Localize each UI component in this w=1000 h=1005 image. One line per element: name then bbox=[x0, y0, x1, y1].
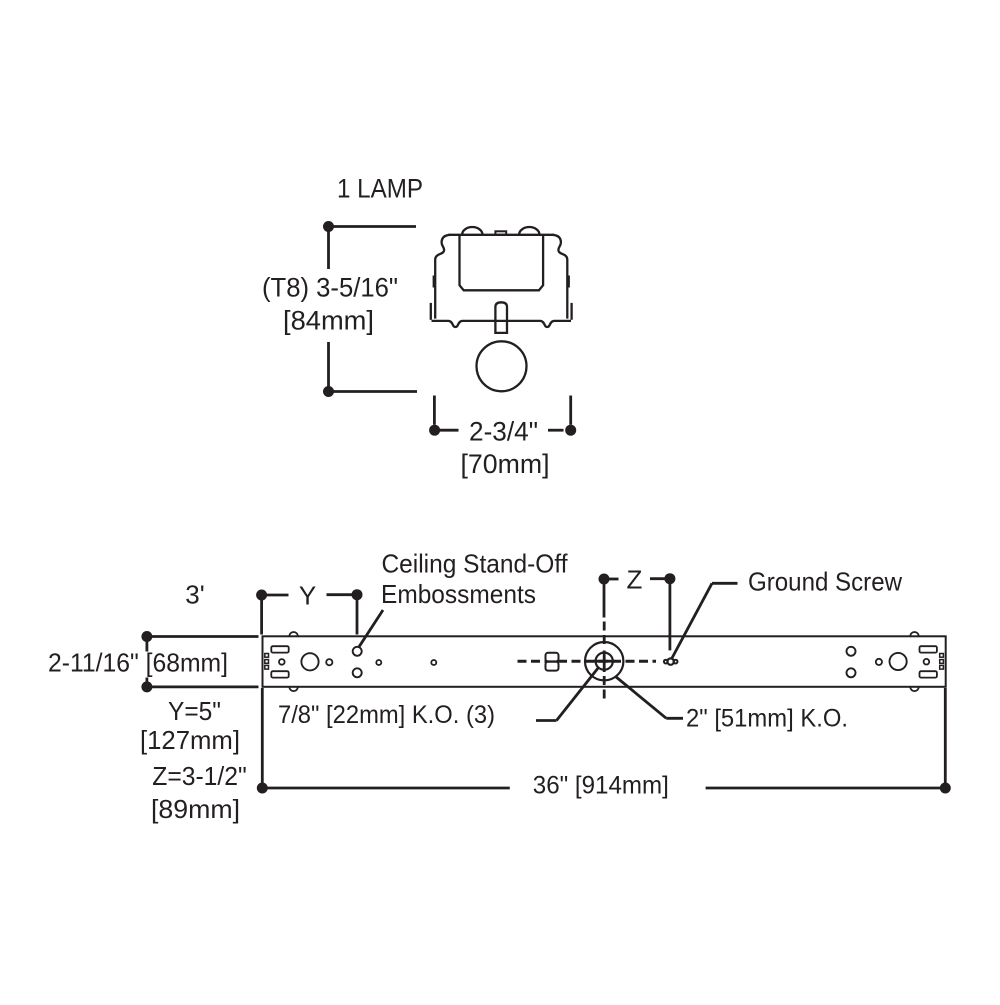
embossment hole upper bbox=[353, 647, 362, 656]
svg-text:Ceiling Stand-Off: Ceiling Stand-Off bbox=[382, 549, 569, 579]
dimension Y right line bbox=[327, 593, 358, 596]
strip left slot lower bbox=[271, 671, 288, 677]
fixture top bump left bbox=[462, 227, 482, 235]
fixture bottom tab bbox=[495, 302, 507, 333]
dimension 2-11/16 bottom dot bbox=[141, 681, 152, 692]
knockout inner circle bbox=[596, 653, 613, 670]
svg-text:[70mm]: [70mm] bbox=[461, 449, 550, 479]
svg-text:Z: Z bbox=[627, 565, 643, 595]
strip keyhole arc top right bbox=[910, 632, 919, 636]
dimension 2-3/4 right dot bbox=[565, 425, 576, 436]
strip left edge tiny squares bbox=[265, 654, 269, 658]
dimension 2-3/4 left extension bbox=[433, 396, 436, 425]
lamp circle bbox=[477, 341, 527, 391]
dimension Y left dot bbox=[256, 590, 267, 601]
fixture bottom edge with notches bbox=[432, 321, 572, 327]
svg-text:[84mm]: [84mm] bbox=[283, 306, 374, 336]
dimension Z dashed centerline vertical lower bbox=[603, 676, 606, 699]
dimension 2-3/4 left dot bbox=[429, 425, 440, 436]
dimension Z right dot bbox=[664, 573, 675, 584]
cable clamp upper bbox=[546, 653, 559, 662]
dimension 36 left line bbox=[262, 787, 510, 790]
dimension 36 left dot bbox=[257, 783, 268, 794]
dimension 2-11/16 top dot bbox=[141, 631, 152, 642]
svg-text:Embossments: Embossments bbox=[381, 579, 536, 609]
embossment hole lower bbox=[353, 668, 362, 677]
strip right large hole bbox=[890, 653, 907, 670]
strip right small hole bbox=[924, 659, 930, 665]
fixture housing outer body left side ogee bbox=[435, 235, 450, 319]
dimension Y right dot bbox=[352, 589, 363, 600]
dimension 2-3/4 right line bbox=[548, 429, 564, 432]
fixture left flange bbox=[430, 303, 432, 320]
dimension Y left extension down bbox=[260, 595, 263, 635]
label 2-11/16" [68mm] bbox=[140, 653, 232, 676]
dimension 2-11/16 top line bbox=[147, 635, 259, 638]
pointer ground screw horizontal bbox=[712, 582, 738, 585]
strip left large hole bbox=[301, 653, 318, 670]
dimension line bottom horizontal bbox=[329, 390, 418, 393]
dimension 36 left extension bbox=[261, 688, 264, 788]
pointer knockout right horizontal bbox=[666, 717, 683, 720]
strip keyhole arc top left bbox=[289, 632, 298, 636]
dimension Z left dot bbox=[599, 574, 610, 585]
strip right slot lower bbox=[920, 671, 937, 677]
fixture right side tick bbox=[567, 276, 570, 288]
pointer knockout left horizontal bbox=[536, 719, 557, 722]
dimension 2-3/4 left line bbox=[435, 429, 459, 432]
dimension 36 right line bbox=[706, 787, 946, 790]
dimension Z extension solid upper bbox=[603, 579, 606, 618]
cable clamp lower bbox=[546, 662, 559, 671]
dimension 36 right dot bbox=[940, 783, 951, 794]
strip dashed centerline bbox=[518, 660, 657, 663]
embossment hole right lower bbox=[847, 668, 856, 677]
dimension 2-11/16 vertical lower bbox=[145, 678, 148, 687]
svg-text:Y: Y bbox=[299, 581, 316, 611]
fixture left side tick bbox=[433, 276, 436, 288]
svg-text:7/8" [22mm] K.O. (3): 7/8" [22mm] K.O. (3) bbox=[278, 701, 495, 729]
fixture inner channel bbox=[460, 235, 544, 290]
svg-text:36" [914mm]: 36" [914mm] bbox=[533, 772, 669, 800]
dimension extension vertical bottom segment bbox=[327, 342, 330, 392]
strip left small hole bbox=[279, 659, 285, 665]
dimension Y right extension down bbox=[356, 595, 359, 635]
pointer knockout right diagonal bbox=[616, 677, 667, 719]
fixture right flange bbox=[570, 303, 572, 320]
fixture housing outer body right side ogee bbox=[552, 235, 567, 319]
dimension line top horizontal bbox=[329, 225, 417, 228]
svg-text:Z=3-1/2": Z=3-1/2" bbox=[152, 761, 247, 791]
strip right medium hole bbox=[876, 659, 882, 665]
fixture top center tab bbox=[495, 231, 506, 235]
svg-text:Y=5": Y=5" bbox=[168, 696, 221, 726]
svg-text:2-11/16" [68mm]: 2-11/16" [68mm] bbox=[48, 648, 228, 678]
dimension 36 right extension bbox=[944, 688, 947, 788]
fixture housing top edge bbox=[449, 234, 555, 236]
pointer ground screw diagonal bbox=[672, 583, 713, 659]
dimension Z dashed centerline vertical upper bbox=[603, 622, 606, 649]
dimension 2-11/16 bottom line bbox=[147, 686, 259, 689]
svg-text:[89mm]: [89mm] bbox=[151, 794, 240, 824]
pointer embossments bbox=[359, 610, 383, 647]
svg-text:1 LAMP: 1 LAMP bbox=[337, 174, 423, 204]
strip right slot upper bbox=[920, 646, 937, 652]
dimension Y left line bbox=[262, 594, 289, 597]
strip left slot upper bbox=[271, 646, 288, 652]
dimension bracket bottom dot bbox=[323, 386, 334, 397]
dimension 2-11/16 vertical upper bbox=[145, 637, 148, 652]
svg-text:[127mm]: [127mm] bbox=[140, 725, 240, 755]
knockout cross horizontal bbox=[594, 660, 616, 663]
knockout cross vertical bbox=[603, 651, 606, 673]
strip body outline bbox=[263, 636, 946, 687]
dimension bracket (T8) height: top dot bbox=[323, 221, 334, 232]
fixture top bump right bbox=[519, 227, 539, 235]
strip small hole b bbox=[431, 660, 436, 665]
strip right edge tiny squares bbox=[940, 654, 944, 658]
dimension 2-3/4 right extension bbox=[569, 396, 572, 425]
strip keyhole arc bottom right bbox=[910, 687, 919, 691]
knockout outer circle bbox=[585, 642, 623, 680]
svg-text:2" [51mm] K.O.: 2" [51mm] K.O. bbox=[686, 705, 848, 733]
dimension Z right extension down to ground screw bbox=[669, 579, 672, 651]
dimension Z right line bbox=[650, 577, 670, 580]
svg-text:(T8) 3-5/16": (T8) 3-5/16" bbox=[262, 273, 398, 303]
svg-text:3': 3' bbox=[185, 580, 204, 610]
svg-text:2-3/4": 2-3/4" bbox=[469, 417, 538, 447]
svg-text:Ground Screw: Ground Screw bbox=[748, 567, 902, 597]
strip small hole a bbox=[376, 660, 381, 665]
strip left medium hole bbox=[326, 659, 332, 665]
dimension extension vertical top segment bbox=[327, 227, 330, 270]
embossment hole right upper bbox=[847, 647, 856, 656]
strip keyhole arc bottom left bbox=[289, 687, 298, 691]
ground screw symbol bbox=[664, 660, 668, 664]
pointer knockout left diagonal bbox=[557, 668, 599, 721]
dimension Z left line bbox=[604, 578, 619, 581]
